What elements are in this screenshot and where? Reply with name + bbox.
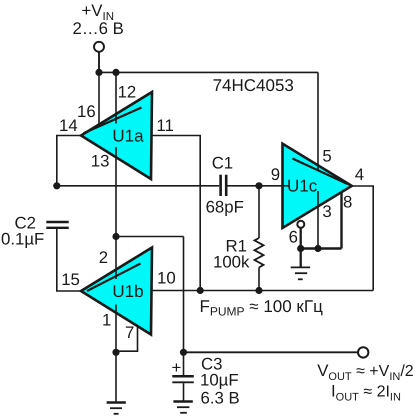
svg-text:FPUMP ≈ 100 кГц: FPUMP ≈ 100 кГц [200, 297, 324, 319]
U1a switch lever [84, 108, 142, 134]
terminal VOUT [358, 347, 368, 357]
U1b switch lever [87, 264, 141, 292]
svg-text:6: 6 [289, 228, 298, 247]
wire +VIN stub [98, 52, 100, 73]
junction pin3 node [314, 245, 321, 252]
svg-text:6.3 В: 6.3 В [201, 389, 240, 408]
wire pin 2 stub inside U1b [115, 269, 117, 279]
svg-text:100k: 100k [213, 253, 250, 272]
svg-text:U1a: U1a [112, 127, 144, 146]
svg-text:1: 1 [102, 311, 111, 330]
U1c switch lever [293, 159, 348, 185]
op-amp U1a (mux switch) [81, 92, 152, 179]
capacitor C2 [46, 222, 68, 228]
svg-text:5: 5 [322, 147, 331, 166]
wire pins 13-2 vertical [115, 157, 117, 271]
svg-text:3: 3 [322, 202, 331, 221]
wire output [184, 351, 359, 353]
svg-text:U1c: U1c [287, 177, 318, 196]
pin 6 inverter bubble [297, 221, 304, 228]
junction at +VIN / pin16 [95, 69, 102, 76]
wire pin13 node to C3 node vertical [183, 237, 185, 353]
svg-text:IOUT ≈ 2IIN: IOUT ≈ 2IIN [331, 382, 401, 404]
junction pin13/pin2 node [112, 233, 119, 240]
node +VIN label [73, 1, 124, 38]
wire pin 7 [116, 326, 138, 351]
wire C2 bottom to pin 15 [57, 229, 81, 291]
svg-text:10µF: 10µF [200, 371, 239, 390]
svg-text:9: 9 [271, 165, 280, 184]
terminal +VIN [94, 42, 104, 52]
wire pin 4 feedback [352, 186, 373, 291]
svg-text:7: 7 [125, 323, 134, 342]
wire C1 to pin 9 [226, 185, 282, 187]
capacitor C3 [183, 352, 185, 375]
wire ground stem U1c [300, 249, 302, 268]
svg-text:VOUT ≈ +VIN/2: VOUT ≈ +VIN/2 [317, 361, 414, 383]
junction at pin 12 [112, 69, 119, 76]
wire pin 8 [301, 192, 342, 248]
wire pin 10 oscillator line [152, 290, 374, 292]
wire pin 3 [317, 191, 319, 249]
wire pin13 node to C3 node horizontal [116, 236, 184, 238]
junction at node A left [53, 182, 60, 189]
svg-text:C1: C1 [212, 154, 233, 173]
wire +V rail [99, 71, 318, 73]
svg-text:14: 14 [59, 116, 78, 135]
svg-text:12: 12 [118, 83, 137, 102]
junction pin1/pin7 [112, 349, 119, 356]
svg-text:8: 8 [343, 193, 352, 212]
op-amp U1b (mux switch) [81, 248, 152, 335]
svg-text:U1b: U1b [112, 282, 143, 301]
wire pin 11 [152, 136, 201, 291]
svg-text:11: 11 [156, 116, 173, 135]
ground C3 [173, 402, 192, 413]
svg-text:+: + [172, 358, 182, 377]
capacitor C1 [221, 175, 227, 196]
wire pin 16 stub inside U1a [98, 124, 100, 128]
svg-text:15: 15 [61, 270, 80, 289]
wire pin 5 drop [317, 72, 319, 166]
svg-text:2: 2 [99, 248, 108, 267]
svg-text:74HC4053: 74HC4053 [213, 76, 294, 95]
svg-text:68pF: 68pF [206, 198, 244, 217]
svg-text:16: 16 [77, 102, 96, 121]
junction pin6 node [297, 245, 304, 252]
resistor R1 [258, 186, 260, 238]
wire pin 12 [115, 72, 117, 115]
wire pin 5 stub inside U1c [317, 164, 319, 171]
wire pin 9 stub inside U1c [283, 185, 289, 187]
svg-text:4: 4 [355, 165, 364, 184]
junction pin10/pin11 [197, 287, 204, 294]
junction C1/R1 [255, 182, 262, 189]
wire ground stem U1b [115, 352, 117, 401]
svg-text:0.1µF: 0.1µF [1, 229, 44, 248]
svg-text:13: 13 [91, 152, 110, 171]
junction R1 bottom [255, 287, 262, 294]
wire pin 12 stub inside U1a [115, 114, 117, 124]
wire pin 1 [115, 313, 117, 352]
svg-text:10: 10 [157, 269, 176, 288]
ground U1b [107, 403, 126, 414]
wire pin 1 stub inside U1b [115, 305, 117, 315]
wire node A horizontal (pin14/C2 to C1) [57, 185, 219, 187]
junction C3 / output node [180, 349, 187, 356]
op-amp U1c (mux switch) [283, 144, 352, 228]
wire pin 14 [57, 136, 81, 186]
wire pin 16 [98, 72, 100, 126]
wire pin 6 [300, 228, 302, 249]
wire pin 13 stub inside U1a [115, 147, 117, 158]
ground U1c [291, 267, 310, 279]
svg-text:2…6 В: 2…6 В [73, 19, 124, 38]
